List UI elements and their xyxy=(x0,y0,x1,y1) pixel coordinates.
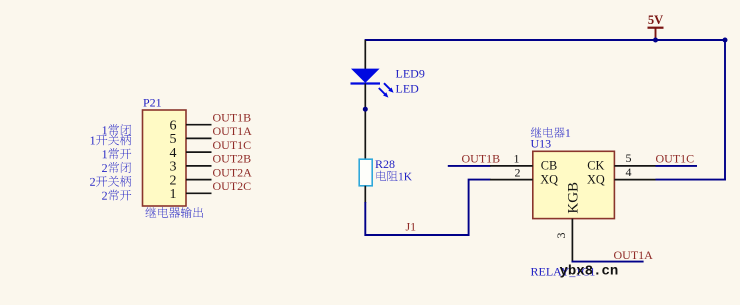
svg-text:R28: R28 xyxy=(375,157,395,171)
svg-text:LED9: LED9 xyxy=(396,67,425,81)
P21 pin number 6 xyxy=(170,119,177,134)
net label OUT1B xyxy=(462,152,501,166)
relay pin name XQ (left) xyxy=(540,173,558,187)
svg-text:J1: J1 xyxy=(406,219,417,233)
P21 pin name 1常开 xyxy=(103,148,132,159)
P21 pin 2 wire stub xyxy=(186,179,212,181)
P21 comment label 继电器输出 (relay output) xyxy=(145,207,203,218)
svg-text:OUT2B: OUT2B xyxy=(213,152,252,166)
LED designator LED9 xyxy=(396,67,425,81)
connector P21 body xyxy=(143,110,187,206)
wire: right vertical drop to relay pin 4 xyxy=(724,39,726,180)
wire: relay pin 4 to right vertical xyxy=(656,179,726,181)
svg-text:KGB: KGB xyxy=(566,182,582,214)
net label OUT2A (P21 pin 2) xyxy=(213,165,253,179)
P21 pin number 2 xyxy=(170,173,177,188)
net label OUT2C (P21 pin 1) xyxy=(213,179,252,193)
LED value label LED xyxy=(396,81,420,95)
svg-text:CB: CB xyxy=(541,158,557,172)
net label OUT2B (P21 pin 3) xyxy=(213,152,252,166)
svg-text:CK: CK xyxy=(587,158,604,172)
svg-text:OUT2C: OUT2C xyxy=(213,179,252,193)
svg-text:OUT2A: OUT2A xyxy=(213,165,253,179)
relay pin 2 stub xyxy=(490,179,533,181)
P21 pin name 2常开 xyxy=(102,190,131,201)
P21 pin name 1常闭 xyxy=(103,124,131,135)
resistor R28 body xyxy=(359,159,372,186)
power port 5V label xyxy=(648,13,663,27)
P21 pin 1 wire stub xyxy=(186,192,212,194)
wire: LED cathode down to resistor xyxy=(364,84,366,160)
relay designator label 继电器1 xyxy=(531,127,570,138)
P21 pin 5 wire stub xyxy=(186,137,212,139)
relay U13 body xyxy=(533,151,615,218)
svg-text:2: 2 xyxy=(515,165,521,179)
P21 pin name 1开关柄 xyxy=(91,134,132,145)
svg-text:5: 5 xyxy=(626,151,632,165)
junction dot below LED xyxy=(363,107,368,112)
svg-text:OUT1C: OUT1C xyxy=(213,138,252,152)
P21 pin 3 wire stub xyxy=(186,165,212,167)
relay pin number 1 xyxy=(514,152,520,166)
wire: OUT1A stub from relay pin 3 xyxy=(572,261,644,263)
P21 pin number 3 xyxy=(170,160,177,175)
power port 5V bar symbol xyxy=(648,28,664,40)
wire: 5V top rail xyxy=(365,39,726,41)
svg-text:3: 3 xyxy=(554,233,568,239)
svg-text:1: 1 xyxy=(170,187,177,202)
relay designator U13 xyxy=(531,137,552,151)
junction dot at 5V tap xyxy=(653,38,658,43)
relay pin 4 stub xyxy=(614,179,655,181)
net label J1 xyxy=(406,219,417,233)
net label OUT1C (P21 pin 4) xyxy=(213,138,252,152)
svg-text:OUT1A: OUT1A xyxy=(213,124,253,138)
relay pin name KGB (rotated) xyxy=(566,182,582,214)
P21 pin name 2开关柄 xyxy=(90,176,131,187)
svg-text:XQ: XQ xyxy=(540,173,558,187)
net label OUT1B (P21 pin 6) xyxy=(213,110,252,124)
resistor designator R28 xyxy=(375,157,395,171)
svg-text:OUT1B: OUT1B xyxy=(462,152,501,166)
relay pin number 3 (rotated) xyxy=(554,233,568,239)
P21 pin 6 wire stub xyxy=(186,124,212,126)
wire: vertical from rail to LED anode xyxy=(364,40,366,69)
svg-text:XQ: XQ xyxy=(587,173,605,187)
svg-text:OUT1B: OUT1B xyxy=(213,110,252,124)
net label OUT1A xyxy=(614,248,654,262)
wire: J1 net (down, right, up to relay pin 2) xyxy=(365,180,490,235)
svg-text:OUT1C: OUT1C xyxy=(656,152,695,166)
watermark ybx8.cn xyxy=(560,263,619,279)
net label RELAY_1C1 xyxy=(531,264,596,278)
svg-text:P21: P21 xyxy=(143,96,162,110)
connector P21 designator label xyxy=(143,96,162,110)
net label OUT1A (P21 pin 5) xyxy=(213,124,253,138)
LED D? symbol: triangle xyxy=(351,69,394,98)
relay pin name XQ (right) xyxy=(587,173,605,187)
svg-text:1: 1 xyxy=(514,152,520,166)
svg-text:5V: 5V xyxy=(648,13,663,27)
svg-text:4: 4 xyxy=(626,165,632,179)
relay pin number 2 xyxy=(515,165,521,179)
svg-text:LED: LED xyxy=(396,81,420,95)
svg-text:U13: U13 xyxy=(531,137,552,151)
relay pin name CK xyxy=(587,158,604,172)
P21 pin 4 wire stub xyxy=(186,151,212,153)
wire: OUT1C stub from relay pin 5 xyxy=(656,165,698,167)
relay pin number 4 xyxy=(626,165,632,179)
P21 pin number 1 xyxy=(170,187,177,202)
relay pin 1 stub xyxy=(490,165,533,167)
svg-text:ybx8.cn: ybx8.cn xyxy=(560,263,619,279)
resistor value 电阻1K xyxy=(377,171,412,181)
relay pin 3 stub (bottom) xyxy=(571,219,573,262)
wire: OUT1B stub to relay pin 1 xyxy=(448,165,491,167)
net label OUT1C xyxy=(656,152,695,166)
wire: resistor bottom pin xyxy=(364,186,366,203)
relay pin number 5 xyxy=(626,151,632,165)
P21 pin number 5 xyxy=(170,132,177,147)
relay pin 5 stub xyxy=(614,165,655,167)
P21 pin number 4 xyxy=(170,146,177,161)
svg-text:4: 4 xyxy=(170,146,177,161)
relay pin name CB xyxy=(541,158,557,172)
svg-text:OUT1A: OUT1A xyxy=(614,248,654,262)
junction dot at top right corner xyxy=(723,38,728,43)
P21 pin name 2常闭 xyxy=(102,162,131,173)
